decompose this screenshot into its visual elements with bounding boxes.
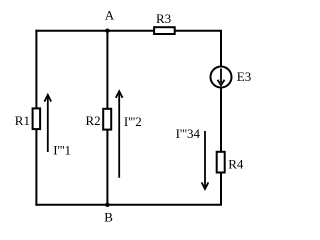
svg-text:R3: R3 — [156, 11, 171, 26]
svg-text:E3: E3 — [237, 69, 251, 84]
svg-text:B: B — [104, 209, 113, 224]
svg-text:R1: R1 — [15, 113, 30, 128]
svg-text:I'''34: I'''34 — [176, 126, 201, 141]
svg-text:R2: R2 — [86, 113, 101, 128]
svg-text:R4: R4 — [228, 157, 244, 172]
svg-text:A: A — [105, 8, 115, 23]
svg-text:I'''1: I'''1 — [53, 142, 71, 157]
svg-text:I'''2: I'''2 — [124, 114, 142, 129]
